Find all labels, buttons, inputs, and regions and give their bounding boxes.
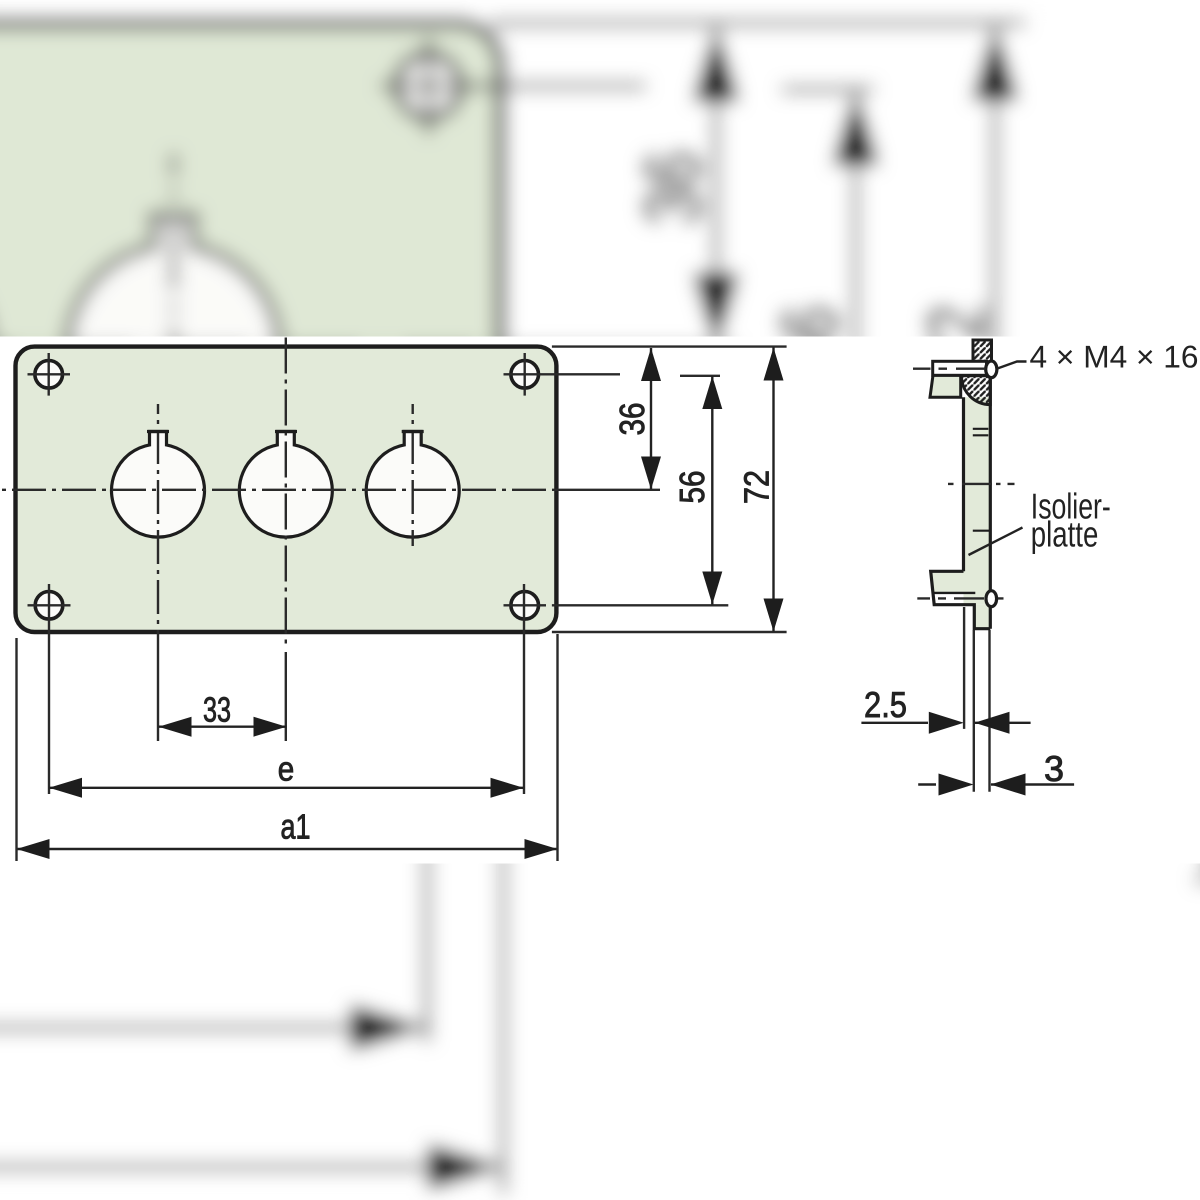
sharp drawing strip: [0, 337, 1200, 864]
